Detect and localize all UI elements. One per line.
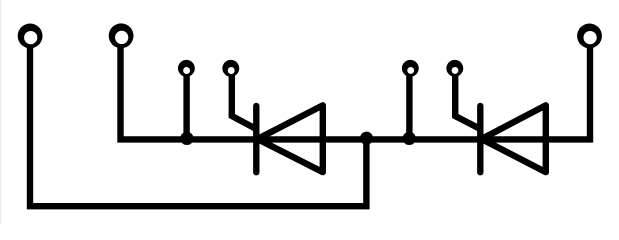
wire from small terminal K1 down to node N0 [183, 74, 189, 140]
thyristor V2 cathode bar [477, 106, 483, 172]
thyristor V2 triangle [482, 105, 546, 172]
wire from small terminal K2 down to node N2 [406, 74, 412, 140]
small terminal G2 open circle [446, 60, 463, 77]
node N2 junction dot [403, 132, 416, 145]
wire main bus from terminal B down, across, up to terminal C [121, 44, 591, 139]
wire gate lead G1 to thyristor V1 cathode [232, 74, 256, 130]
small terminal G1 open circle [222, 60, 239, 77]
terminal C open circle [577, 24, 602, 49]
small terminal K2 open circle [402, 60, 419, 77]
node N1 junction dot [360, 132, 373, 145]
thyristor V1 triangle [258, 105, 323, 172]
terminal B open circle [109, 23, 134, 48]
small terminal K1 open circle [178, 60, 195, 77]
terminal A open circle [18, 24, 43, 49]
node N0 junction dot [180, 132, 193, 145]
wire gate lead G2 to thyristor V2 cathode [455, 74, 480, 130]
thyristor V1 cathode bar [253, 106, 259, 172]
wire from terminal A down, along bottom, up to node N1 [30, 44, 366, 206]
